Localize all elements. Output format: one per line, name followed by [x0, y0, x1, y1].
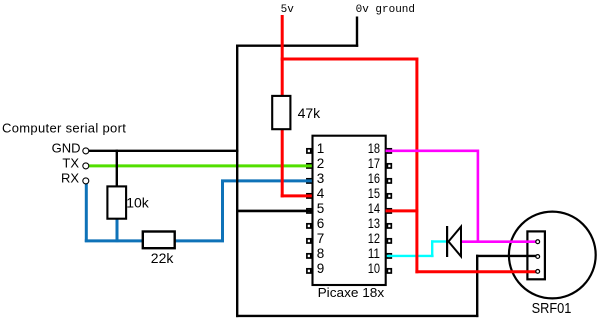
- svg-text:10k: 10k: [126, 195, 150, 211]
- wire 0v left vertical: [236, 45, 238, 318]
- wire 0v top horizontal: [236, 45, 358, 47]
- terminal GND: [52, 140, 89, 155]
- wire GND to junction: [87, 150, 238, 152]
- U1 left pin squares 1-9: [307, 149, 311, 273]
- SRF01 connector pin top: [536, 240, 540, 244]
- svg-text:3: 3: [317, 171, 325, 186]
- svg-text:14: 14: [368, 201, 381, 216]
- svg-text:11: 11: [368, 246, 380, 261]
- svg-text:47k: 47k: [298, 105, 322, 121]
- wire 10k top tap: [116, 150, 118, 187]
- wire 0v bottom horizontal: [236, 315, 478, 317]
- svg-text:22k: 22k: [151, 250, 175, 266]
- wire blue bottom left to 22k: [85, 239, 143, 242]
- IC U1 Picaxe 18x body: [313, 136, 386, 285]
- SRF01 connector: [527, 231, 545, 279]
- wire red bottom to SRF01: [415, 270, 538, 273]
- wire 0v ground top vertical: [356, 17, 358, 47]
- svg-text:TX: TX: [62, 155, 79, 170]
- wire magenta vertical: [477, 150, 480, 244]
- wire red right vertical: [415, 58, 418, 274]
- SRF01 connector pin bottom: [536, 270, 540, 274]
- wire green TX to pin 2: [89, 164, 312, 167]
- terminal TX: [62, 155, 88, 170]
- wire blue to pin 3: [221, 179, 312, 182]
- wire black to SRF01 middle pin: [476, 255, 538, 257]
- wire cyan pin 11: [387, 255, 434, 257]
- svg-text:5v: 5v: [281, 4, 295, 16]
- svg-text:13: 13: [368, 216, 380, 231]
- wire red branch horizontal: [281, 58, 419, 61]
- svg-text:12: 12: [368, 231, 380, 246]
- svg-text:16: 16: [368, 171, 380, 186]
- wire magenta pin 18: [386, 150, 480, 153]
- wire red pin 14: [386, 209, 419, 212]
- wire black to pin 5: [236, 210, 312, 213]
- svg-text:7: 7: [317, 231, 325, 246]
- svg-text:RX: RX: [61, 170, 79, 185]
- SRF01 connector pin middle: [536, 255, 540, 259]
- svg-text:6: 6: [317, 216, 325, 231]
- svg-text:9: 9: [317, 261, 325, 276]
- SRF01 body circle: [509, 212, 596, 299]
- svg-text:8: 8: [317, 246, 325, 261]
- svg-text:0v ground: 0v ground: [356, 4, 415, 16]
- wire red 47k to corner: [281, 129, 284, 198]
- wire blue 10k bottom tap: [116, 219, 119, 242]
- svg-text:Picaxe 18x: Picaxe 18x: [318, 285, 385, 300]
- svg-text:15: 15: [368, 186, 380, 201]
- svg-text:2: 2: [317, 156, 325, 171]
- svg-text:Computer serial port: Computer serial port: [2, 120, 126, 135]
- wire 0v right vertical up: [476, 255, 478, 317]
- svg-text:5: 5: [317, 201, 325, 216]
- svg-text:10: 10: [368, 261, 380, 276]
- wire red 5v vertical: [281, 15, 284, 97]
- svg-text:SRF01: SRF01: [532, 301, 572, 317]
- wire cyan vertical: [431, 240, 433, 257]
- resistor 47k: [272, 96, 290, 129]
- svg-text:GND: GND: [52, 140, 81, 155]
- wire red corner to pin 4: [281, 194, 312, 197]
- wire blue 22k right: [175, 239, 225, 242]
- U1 right pin squares 18-10: [387, 149, 391, 273]
- diode D1 triangle: [449, 227, 462, 257]
- wire magenta diode to SRF01 top pin: [462, 240, 538, 243]
- terminal RX: [61, 170, 89, 185]
- U1 pin numbers 18-10: [368, 141, 381, 276]
- wire blue RX down: [85, 184, 88, 243]
- U1 pin numbers 1-9: [317, 141, 325, 276]
- resistor 10k: [107, 186, 126, 218]
- svg-text:4: 4: [317, 186, 325, 201]
- wire cyan to diode cathode: [431, 240, 447, 242]
- wire blue vertical up: [221, 180, 224, 242]
- svg-text:18: 18: [368, 141, 380, 156]
- diode D1 cathode bar: [446, 226, 448, 257]
- resistor 22k: [143, 232, 175, 249]
- svg-text:1: 1: [317, 141, 325, 156]
- svg-text:17: 17: [368, 156, 380, 171]
